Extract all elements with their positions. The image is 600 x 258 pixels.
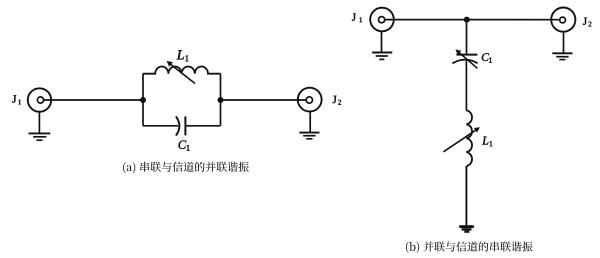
label C1 — [482, 53, 492, 62]
wire L1 to ground — [465, 166, 467, 226]
capacitor C1 (variable) — [452, 55, 477, 64]
arrow of variable inductor L1 — [444, 127, 480, 152]
label L1 — [177, 50, 189, 61]
label C1 — [179, 141, 190, 151]
ground below J1 — [29, 112, 51, 141]
arrow of variable capacitor C1 — [455, 49, 477, 68]
wire J1 to left node — [44, 99, 143, 101]
label L1 — [482, 137, 492, 147]
ground below J2 — [552, 32, 572, 60]
label J1 — [12, 95, 21, 104]
label J2 — [583, 18, 591, 27]
connector J2 — [551, 8, 575, 32]
caption (b) — [406, 241, 533, 253]
ground below J2 — [299, 112, 319, 139]
connector J1 — [28, 88, 51, 111]
wire tank right vertical — [220, 74, 222, 126]
wire top node to J2 — [467, 19, 560, 21]
wire tank left vertical — [142, 74, 144, 126]
connector J2 — [298, 88, 322, 112]
ground below J1 — [372, 31, 392, 59]
label J1 — [352, 14, 362, 23]
node top junction — [464, 17, 470, 23]
inductor L1 — [143, 67, 221, 74]
inductor L1 — [466, 110, 472, 166]
wire right node to J2 — [221, 99, 307, 101]
capacitor C1 — [143, 116, 221, 135]
caption (a) — [123, 162, 249, 174]
wire top node down to C1 — [466, 20, 468, 54]
node left tank junction — [140, 97, 146, 103]
connector J1 — [370, 8, 394, 32]
label J2 — [333, 96, 341, 105]
ground at bottom — [459, 227, 474, 232]
wire C1 to L1 — [465, 60, 467, 111]
wire J1 to top node — [385, 19, 467, 21]
arrow of variable inductor L1 — [167, 61, 195, 84]
node right tank junction — [218, 97, 224, 103]
